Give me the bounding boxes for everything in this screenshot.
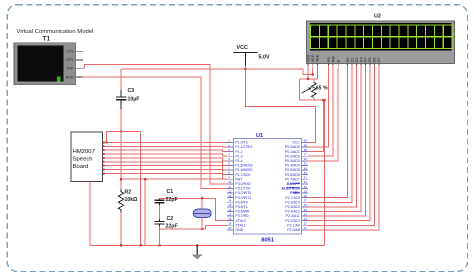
svg-text:30: 30 — [304, 185, 308, 189]
ground symbol — [196, 245, 198, 254]
svg-text:HM2007: HM2007 — [73, 149, 95, 155]
svg-text:P3.0/RXD: P3.0/RXD — [235, 182, 251, 186]
svg-text:C3: C3 — [128, 88, 135, 94]
svg-text:P3.3/INT1: P3.3/INT1 — [235, 196, 251, 200]
svg-text:R2: R2 — [125, 190, 132, 196]
HM2007 label — [73, 149, 95, 170]
junction VCC node — [244, 68, 247, 71]
capacitor C3 — [120, 90, 122, 97]
svg-text:VCC: VCC — [292, 141, 300, 145]
svg-text:17: 17 — [228, 212, 232, 216]
svg-text:P1.3: P1.3 — [235, 154, 242, 158]
wire VEE drop to pot — [322, 100, 324, 151]
svg-text:U1: U1 — [256, 133, 263, 139]
virtual terminal T1 cursor — [57, 77, 60, 82]
svg-text:XTAL1: XTAL1 — [235, 223, 245, 227]
svg-text:D0: D0 — [346, 57, 350, 62]
svg-text:22pF: 22pF — [166, 197, 178, 203]
svg-text:Speech: Speech — [73, 157, 93, 163]
svg-text:Board: Board — [73, 164, 89, 170]
wire crystal top lead — [201, 198, 203, 209]
wire crystal bottom lead — [201, 217, 203, 229]
wire VCC stub down — [245, 66, 247, 70]
wire pot left loop — [300, 79, 325, 100]
svg-text:C1: C1 — [167, 189, 174, 195]
svg-text:RW: RW — [331, 56, 335, 63]
svg-text:ALE/PROG: ALE/PROG — [282, 187, 301, 191]
wire C3 top lead — [120, 69, 122, 90]
svg-text:D1: D1 — [350, 57, 354, 62]
svg-text:38: 38 — [304, 148, 308, 152]
U1 pin numbers — [228, 139, 307, 230]
svg-text:P1.1/T2EX: P1.1/T2EX — [235, 145, 253, 149]
wire bus U1 P2 to LCD D0-D7 — [308, 68, 379, 229]
svg-text:D4: D4 — [364, 57, 368, 62]
svg-text:P3.2/INT0: P3.2/INT0 — [235, 191, 251, 195]
svg-text:Virtual Communication Model: Virtual Communication Model — [17, 29, 94, 35]
junction rail ground tap — [196, 244, 199, 247]
svg-text:P2.2/A10: P2.2/A10 — [285, 219, 299, 223]
wire pot bottom lead — [313, 98, 315, 101]
T1 pin labels CTS RTS TXD RXD — [66, 50, 74, 80]
svg-text:P0.4/AD4: P0.4/AD4 — [285, 164, 300, 168]
resistor R2 — [118, 189, 123, 213]
svg-text:VDD: VDD — [311, 54, 315, 62]
potentiometer RV1 (contrast) — [311, 83, 316, 98]
svg-text:14: 14 — [228, 199, 232, 203]
wire RST to U1 RST pin — [121, 178, 227, 180]
svg-text:D5: D5 — [368, 57, 372, 62]
svg-text:10kΩ: 10kΩ — [125, 197, 138, 203]
junction pot bottom — [323, 99, 326, 102]
svg-text:P1.2: P1.2 — [235, 150, 242, 154]
LCD screen — [310, 23, 452, 50]
svg-text:18: 18 — [228, 217, 232, 221]
svg-text:D6: D6 — [373, 57, 377, 62]
svg-text:EA/VPP: EA/VPP — [287, 182, 301, 186]
svg-text:27: 27 — [304, 199, 308, 203]
svg-text:20: 20 — [228, 226, 232, 230]
svg-text:8051: 8051 — [261, 238, 275, 244]
svg-text:P0.7/AD7: P0.7/AD7 — [285, 177, 300, 181]
wire U1 P0.0 to LCD RS — [308, 68, 328, 147]
virtual terminal T1 screen — [17, 46, 63, 82]
power symbol VCC — [234, 52, 258, 54]
svg-text:P3.7/RD: P3.7/RD — [235, 214, 249, 218]
svg-text:RXD: RXD — [66, 75, 74, 79]
wire C3 bottom lead — [120, 109, 122, 132]
svg-text:39: 39 — [304, 143, 308, 147]
svg-text:P1.0/T2: P1.0/T2 — [235, 141, 247, 145]
virtual terminal T1 body — [14, 43, 76, 85]
wire pot top lead — [313, 79, 315, 83]
svg-text:29: 29 — [304, 189, 308, 193]
svg-text:P2.4/A12: P2.4/A12 — [285, 210, 299, 214]
svg-text:P3.1/TXD: P3.1/TXD — [235, 187, 251, 191]
svg-text:PSEN: PSEN — [290, 191, 300, 195]
svg-text:T1: T1 — [43, 35, 51, 42]
junction C3/RST node — [120, 130, 123, 133]
svg-text:P3.5/T1: P3.5/T1 — [235, 205, 247, 209]
wire C2 bottom to rail — [159, 227, 161, 246]
LCD character cell grid — [311, 25, 452, 49]
svg-text:VSS: VSS — [306, 54, 310, 62]
svg-text:P0.6/AD6: P0.6/AD6 — [285, 173, 300, 177]
wire VCC to U1 VCC pin — [246, 69, 316, 142]
wire T1 TXD to U1 P3.0 — [83, 64, 227, 184]
svg-text:11: 11 — [228, 185, 231, 189]
svg-text:37: 37 — [304, 153, 308, 157]
U1 pin name labels — [235, 141, 300, 232]
svg-text:19: 19 — [228, 222, 232, 226]
svg-text:RST: RST — [235, 177, 243, 181]
wire LCD VSS down — [307, 68, 309, 78]
wire bus HM2007 outputs to U1 P1.0-P1.7 and RST — [103, 141, 228, 179]
svg-text:65 %: 65 % — [316, 85, 328, 91]
wire XTAL1 link — [206, 225, 227, 229]
wire LCD VDD stub — [312, 68, 314, 74]
svg-text:12: 12 — [228, 189, 232, 193]
svg-text:RTS: RTS — [66, 58, 74, 62]
svg-text:P2.6/A14: P2.6/A14 — [285, 200, 299, 204]
svg-text:34: 34 — [304, 166, 308, 170]
svg-text:D2: D2 — [355, 57, 359, 62]
svg-text:P2.5/A13: P2.5/A13 — [285, 205, 299, 209]
svg-text:VEE: VEE — [316, 54, 320, 62]
wire U1 P0.1 stub — [308, 151, 323, 153]
wire R2 bottom to ground rail — [120, 213, 122, 246]
svg-text:26: 26 — [304, 203, 308, 207]
wire ground rail — [90, 182, 325, 246]
svg-text:15: 15 — [228, 203, 232, 207]
svg-text:U2: U2 — [374, 14, 381, 20]
svg-text:P1.4: P1.4 — [235, 159, 242, 163]
wire T1 RXD to U1 P3.1 — [83, 77, 227, 188]
junction rail C2 — [158, 244, 161, 247]
junction rail R2 — [120, 244, 123, 247]
svg-text:22pF: 22pF — [166, 224, 178, 230]
svg-text:31: 31 — [304, 180, 308, 184]
svg-text:CTS: CTS — [66, 50, 74, 54]
wire U1 P0.3 to LCD E — [308, 68, 338, 160]
svg-text:C2: C2 — [167, 216, 174, 222]
svg-text:35: 35 — [304, 162, 308, 166]
wire C1 to C2 — [159, 205, 161, 219]
svg-text:21: 21 — [304, 226, 308, 230]
wire pot GND drop — [324, 100, 326, 245]
svg-text:40: 40 — [304, 139, 308, 143]
svg-text:P1.5/MOSI: P1.5/MOSI — [235, 164, 252, 168]
capacitor C2 — [159, 219, 161, 222]
svg-text:VCC: VCC — [237, 45, 248, 51]
svg-text:P0.2/AD2: P0.2/AD2 — [285, 154, 300, 158]
junction crystal bottom — [201, 228, 204, 231]
T1 pin stubs — [76, 51, 83, 77]
junction crystal top — [201, 197, 204, 200]
svg-text:P2.3/A11: P2.3/A11 — [286, 214, 300, 218]
svg-text:P0.5/AD5: P0.5/AD5 — [285, 168, 300, 172]
junction on P1.0 wire — [105, 141, 108, 144]
capacitor C1 — [159, 198, 161, 200]
crystal X1 — [193, 209, 211, 217]
svg-text:23: 23 — [304, 217, 308, 221]
svg-text:10: 10 — [228, 180, 232, 184]
LCD pin labels — [306, 54, 381, 62]
svg-text:D7: D7 — [377, 57, 381, 62]
svg-text:P0.3/AD3: P0.3/AD3 — [285, 159, 300, 163]
svg-text:P3.6/WR: P3.6/WR — [235, 210, 249, 214]
svg-text:25: 25 — [304, 208, 308, 212]
svg-text:P2.7/A15: P2.7/A15 — [285, 196, 299, 200]
svg-text:TXD: TXD — [66, 67, 74, 71]
svg-text:RS: RS — [327, 57, 331, 63]
wire XTAL2 net — [160, 198, 228, 220]
svg-text:24: 24 — [304, 212, 308, 216]
junction rail RST drop — [139, 244, 142, 247]
junction RST node — [120, 178, 123, 181]
svg-text:5.0V: 5.0V — [259, 54, 270, 60]
svg-text:P2.1/A9: P2.1/A9 — [287, 223, 300, 227]
junction VEE drop — [322, 99, 325, 102]
svg-text:P0.0/AD0: P0.0/AD0 — [285, 145, 300, 149]
svg-text:P1.6/MISO: P1.6/MISO — [235, 168, 252, 172]
HM2007 speech board module — [71, 132, 103, 182]
svg-text:XTAL2: XTAL2 — [235, 219, 245, 223]
wire RST drop — [144, 179, 146, 245]
svg-text:28: 28 — [304, 194, 308, 198]
svg-text:13: 13 — [228, 194, 232, 198]
svg-text:P1.7/SCK: P1.7/SCK — [235, 173, 251, 177]
svg-text:16: 16 — [228, 208, 232, 212]
wire XTAL1 bottom link — [160, 228, 206, 230]
svg-text:GND: GND — [235, 228, 243, 232]
svg-text:P2.0/A8: P2.0/A8 — [287, 228, 300, 232]
junction RST drop — [144, 178, 147, 181]
LCD pin stubs — [308, 64, 379, 69]
svg-text:22: 22 — [304, 222, 308, 226]
junction LCD VDD — [311, 73, 314, 76]
wire LCD VEE down — [316, 68, 318, 78]
wire pot top rail — [300, 78, 318, 80]
svg-text:32: 32 — [304, 176, 308, 180]
microcontroller U1 — [234, 138, 302, 234]
svg-text:P0.1/AD1: P0.1/AD1 — [285, 150, 300, 154]
potentiometer wiper arrow — [302, 89, 310, 94]
svg-text:D3: D3 — [359, 57, 363, 62]
svg-text:10µF: 10µF — [128, 96, 140, 102]
wire RST vertical to R2 — [120, 132, 122, 190]
svg-text:33: 33 — [304, 171, 308, 175]
wire RST link bar — [106, 132, 140, 246]
U1 active-low overbars — [287, 183, 300, 192]
svg-text:36: 36 — [304, 157, 308, 161]
LCD display U2 body — [307, 21, 455, 64]
svg-text:P3.4/T0: P3.4/T0 — [235, 200, 247, 204]
junction VSS rail — [307, 78, 310, 81]
wire VCC rail to LCD VDD — [121, 69, 313, 75]
wire U1 P0.2 to LCD RW — [308, 68, 333, 156]
U1 pin stubs both sides — [227, 142, 308, 229]
